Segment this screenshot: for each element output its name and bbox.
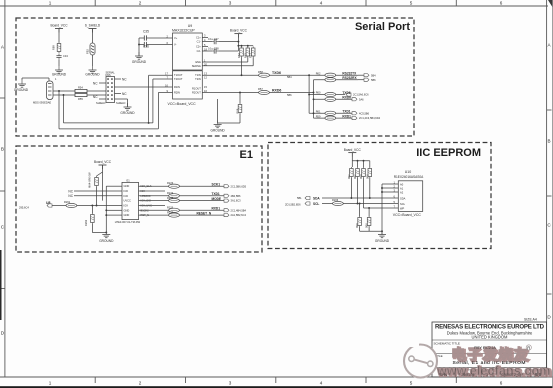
svg-text:NC: NC [68,194,73,198]
svg-text:B: B [547,139,550,144]
svg-text:2C1,5B6,6D5: 2C1,5B6,6D5 [231,184,247,188]
svg-text:IIC EEPROM: IIC EEPROM [416,147,481,159]
svg-text:R56: R56 [236,108,240,113]
svg-text:GND: GND [124,184,130,188]
svg-text:D009072_04: D009072_04 [501,373,521,377]
svg-text:GROUND: GROUND [375,239,390,243]
svg-text:1: 1 [49,1,52,6]
svg-text:C35: C35 [143,30,149,34]
svg-text:NC: NC [93,82,98,86]
svg-text:4K7: 4K7 [347,174,351,179]
svg-text:MDS 09SEDAE: MDS 09SEDAE [33,100,51,104]
svg-text:C: C [1,225,5,230]
svg-text:VCC=Board_VCC: VCC=Board_VCC [393,213,422,217]
svg-text:UNITED KINGDOM: UNITED KINGDOM [472,335,509,340]
svg-text:A: A [1,45,5,50]
svg-text:R0Y RC21A: R0Y RC21A [474,345,496,350]
svg-text:V-: V- [174,43,177,47]
svg-text:2C1,4B4,5B4: 2C1,4B4,5B4 [231,208,247,212]
svg-text:SHDN&: SHDN& [192,64,201,68]
svg-text:MAX3222CUP: MAX3222CUP [172,29,195,33]
svg-text:GROUND: GROUND [132,60,147,64]
svg-text:IOX: IOX [124,204,129,208]
svg-text:MA4-0R0 0W: MA4-0R0 0W [88,172,92,188]
svg-text:Board_VCC: Board_VCC [94,160,112,164]
svg-text:ICD: ICD [124,194,129,198]
svg-text:4C5,5B6: 4C5,5B6 [359,111,370,115]
svg-text:2D1,5B2,6D6: 2D1,5B2,6D6 [285,203,301,207]
svg-text:0R0: 0R0 [365,174,369,179]
svg-text:3: 3 [229,381,232,386]
svg-text:6: 6 [500,1,503,6]
svg-text:C1-: C1- [197,40,201,44]
svg-text:R58: R58 [258,70,263,74]
svg-text:5B1: 5B1 [297,196,302,200]
svg-text:5/6: 5/6 [535,372,542,377]
svg-text:26/01/11: 26/01/11 [461,373,474,377]
svg-text:R225: R225 [167,196,174,200]
svg-text:SCL: SCL [400,202,406,206]
svg-text:2: 2 [139,381,142,386]
svg-text:GROUND: GROUND [52,72,67,76]
svg-text:R51: R51 [249,53,253,58]
svg-text:TXD6: TXD6 [272,71,281,75]
svg-text:C2-: C2- [197,49,201,53]
svg-text:TXD1: TXD1 [212,192,220,196]
svg-text:R1EX24016ASAS0A: R1EX24016ASAS0A [394,175,424,179]
svg-text:5A6: 5A6 [359,97,364,101]
svg-text:A1: A1 [400,186,404,190]
svg-text:ICD: ICD [124,189,129,193]
svg-text:VCC=Board_VCC: VCC=Board_VCC [168,102,197,106]
svg-text:GROUND: GROUND [85,72,100,76]
svg-text:C1+: C1+ [196,36,201,40]
svg-text:E1: E1 [127,179,131,183]
svg-text:R1OUT: R1OUT [192,87,201,91]
svg-text:MODE: MODE [212,197,222,201]
svg-text:R2OUT: R2OUT [192,91,201,95]
svg-text:U9: U9 [188,24,193,28]
svg-text:GND: GND [124,208,130,212]
svg-text:SCHEMATIC TITLE: SCHEMATIC TITLE [434,341,460,345]
svg-text:R53: R53 [243,53,247,58]
svg-text:5: 5 [410,381,413,386]
svg-text:R61: R61 [316,110,321,114]
svg-text:0.1u C38: 0.1u C38 [208,46,219,50]
svg-text:D: D [547,315,551,320]
svg-text:SIZE A4: SIZE A4 [524,318,537,322]
svg-text:GROUND: GROUND [99,239,114,243]
svg-text:NC: NC [68,189,73,193]
svg-text:4: 4 [320,381,323,386]
svg-text:RXD6: RXD6 [272,89,281,93]
svg-text:R262: R262 [84,219,88,226]
svg-text:RS232RX: RS232RX [342,76,357,80]
svg-text:U10: U10 [405,170,411,174]
svg-text:NC: NC [93,95,98,99]
svg-text:WP: WP [400,206,404,210]
svg-text:R57: R57 [258,87,263,91]
svg-text:SHIELD: SHIELD [96,101,105,105]
svg-text:R261: R261 [64,200,71,204]
svg-text:UVCC: UVCC [124,199,131,203]
svg-text:NC: NC [122,92,127,96]
svg-text:5B6: 5B6 [287,93,292,97]
svg-text:D: D [1,331,5,336]
svg-text:R55: R55 [78,97,83,101]
svg-text:GND: GND [124,213,130,217]
svg-text:4B4,5B6: 4B4,5B6 [231,194,242,198]
svg-text:12: 12 [204,76,207,80]
svg-text:C34: C34 [63,54,68,58]
svg-text:T2OUT: T2OUT [174,77,183,81]
svg-text:FB2: FB2 [86,49,90,54]
svg-text:A: A [547,43,551,48]
svg-text:EN&: EN& [195,60,201,64]
svg-text:2A1,5B2,6C4: 2A1,5B2,6C4 [231,213,247,217]
svg-text:T1IN: T1IN [195,73,201,77]
svg-text:0R0: 0R0 [365,223,369,228]
svg-text:R52: R52 [237,53,241,58]
svg-text:3: 3 [486,373,488,377]
svg-text:T2IN: T2IN [195,77,201,81]
svg-text:0R0: 0R0 [355,223,359,228]
svg-text:B: B [1,147,4,152]
svg-text:4: 4 [320,1,323,6]
svg-text:2C1,4C3,5B4,6D4: 2C1,4C3,5B4,6D4 [359,116,381,120]
svg-text:0.1u C37: 0.1u C37 [208,37,219,41]
svg-text:4K7: 4K7 [353,174,357,179]
svg-text:SDA: SDA [313,196,320,200]
svg-text:1: 1 [49,381,52,386]
svg-text:R60: R60 [316,91,321,95]
svg-text:3: 3 [229,1,232,6]
svg-text:GROUND: GROUND [120,111,135,115]
svg-text:SHN: SHN [440,373,448,377]
svg-text:E1: E1 [240,149,253,161]
svg-text:5B4: 5B4 [287,75,292,79]
svg-text:1: 1 [55,77,57,81]
svg-text:SCL: SCL [313,202,319,206]
svg-text:5B6: 5B6 [371,78,376,82]
svg-text:5B4: 5B4 [371,73,376,77]
svg-text:0R0: 0R0 [359,174,363,179]
svg-text:HTE3-007-01-TM-DW: HTE3-007-01-TM-DW [115,220,141,224]
svg-text:RS232TX: RS232TX [342,72,357,76]
svg-text:C: C [547,223,551,228]
svg-text:R1IN: R1IN [174,85,180,89]
svg-text:U8: U8 [46,201,51,205]
svg-text:5: 5 [410,1,413,6]
svg-text:R54: R54 [78,86,83,90]
svg-text:R226: R226 [167,205,174,209]
svg-text:RXD1: RXD1 [212,207,221,211]
svg-text:C2+: C2+ [196,45,201,49]
svg-text:RXD1: RXD1 [342,115,351,119]
svg-text:3A1,6C3: 3A1,6C3 [231,199,242,203]
svg-text:Serial, E1 and IIC EEPROM: Serial, E1 and IIC EEPROM [453,360,526,366]
svg-text:Board_VCC: Board_VCC [344,148,362,152]
svg-text:S_SHIELD: S_SHIELD [85,24,101,28]
svg-text:R: R [527,345,530,350]
svg-text:3: 3 [204,34,206,38]
svg-text:2: 2 [139,1,142,6]
svg-text:GROUND: GROUND [14,88,29,92]
svg-text:R223: R223 [167,181,174,185]
svg-text:R2IN: R2IN [174,91,180,95]
svg-text:SDA: SDA [400,196,406,200]
svg-text:Board_VCC: Board_VCC [50,24,68,28]
svg-text:GROUND: GROUND [211,128,226,132]
svg-text:R227: R227 [167,211,174,215]
svg-text:A0: A0 [400,182,404,186]
svg-text:2C1,5A6,6C6: 2C1,5A6,6C6 [353,93,369,97]
svg-text:15: 15 [204,85,207,89]
svg-text:SCK1: SCK1 [212,182,221,186]
svg-text:R224: R224 [167,191,174,195]
svg-text:TXD1: TXD1 [342,110,350,114]
svg-text:T1OUT: T1OUT [174,73,183,77]
svg-text:6: 6 [500,381,503,386]
svg-text:Serial Port: Serial Port [355,21,410,33]
svg-text:295,6C4: 295,6C4 [19,206,29,210]
svg-text:SHIELD: SHIELD [116,101,125,105]
svg-text:NC: NC [122,78,127,82]
svg-text:RESET_N: RESET_N [197,211,212,215]
svg-text:R59: R59 [316,114,321,118]
svg-text:Board_VCC: Board_VCC [230,29,248,33]
svg-text:R69: R69 [52,45,56,50]
svg-text:R206: R206 [332,198,339,202]
svg-text:V+: V+ [174,36,178,40]
svg-text:A2: A2 [400,190,404,194]
svg-text:R62: R62 [316,71,321,75]
